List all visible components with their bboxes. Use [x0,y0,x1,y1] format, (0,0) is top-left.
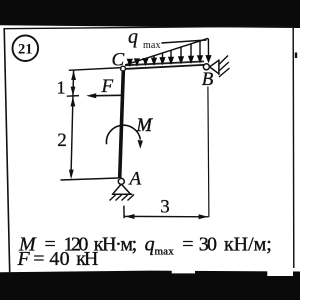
load right edge arrow [206,39,210,62]
dim arrow seg2 down [69,170,74,180]
dim 3 right arrowhead [199,214,208,219]
support A hatching [110,195,135,201]
support B triangle [210,59,219,75]
dim 3 horizontal line [125,215,209,217]
svg-text:A: A [128,169,142,190]
svg-text:F = 40 кН: F = 40 кН [17,248,99,270]
page border left line [4,28,10,277]
svg-text:2: 2 [57,130,67,151]
force F arrow line [96,94,122,96]
top scan band [0,0,300,28]
node B hinge circle [203,64,209,70]
beam member C-B top edge [125,61,204,65]
dim 3 left drop tick [123,206,125,219]
load arrow 5 [169,50,173,63]
beam member C-B bottom edge [125,65,204,69]
q_max leader line [161,40,206,43]
page border top line [4,26,293,29]
bottom band white notch 1 [172,270,195,274]
load arrow 3 [152,56,156,64]
moment M arrowhead [138,140,143,149]
support A triangle [112,184,133,194]
bottom band white notch 2 [267,270,293,277]
left top dimension line [69,68,122,71]
node C hinge circle [121,66,126,71]
load label q_max [128,26,161,51]
bottom line at A level [61,178,119,180]
dim arrow seg1 up [71,71,76,80]
problem number circle 21 [12,35,38,61]
dim 3 left arrowhead [125,214,134,219]
load arrow 6 [179,47,183,63]
right border tick mark [295,53,297,59]
load arrow 1 [135,59,139,65]
svg-text:max: max [143,40,161,51]
node A hinge circle [118,178,124,184]
left middle tick [67,95,79,98]
svg-text:21: 21 [18,42,33,58]
load arrow 7 [189,44,193,62]
moment M arc [106,125,140,144]
load arrow 4 [160,53,164,63]
svg-text:3: 3 [160,197,170,218]
load arrows [128,39,211,66]
dim arrow seg2 up [71,97,76,107]
column member C-A [120,69,124,179]
load arrow 0 [128,60,132,66]
svg-text:q: q [128,26,138,48]
svg-text:1: 1 [57,77,66,97]
left dimension vertical line [71,70,74,177]
svg-text:M: M [136,116,154,136]
bottom scan band [0,271,300,300]
distributed load slant line [125,38,208,65]
dim arrow seg1 down [71,87,76,96]
page border right line [292,28,295,268]
load arrow 8 [198,41,202,62]
svg-text:F: F [101,76,114,97]
dim 3 right drop line from B [208,87,209,218]
support B hatching [219,56,230,78]
load arrow 2 [143,58,147,64]
force F arrowhead [86,93,96,98]
